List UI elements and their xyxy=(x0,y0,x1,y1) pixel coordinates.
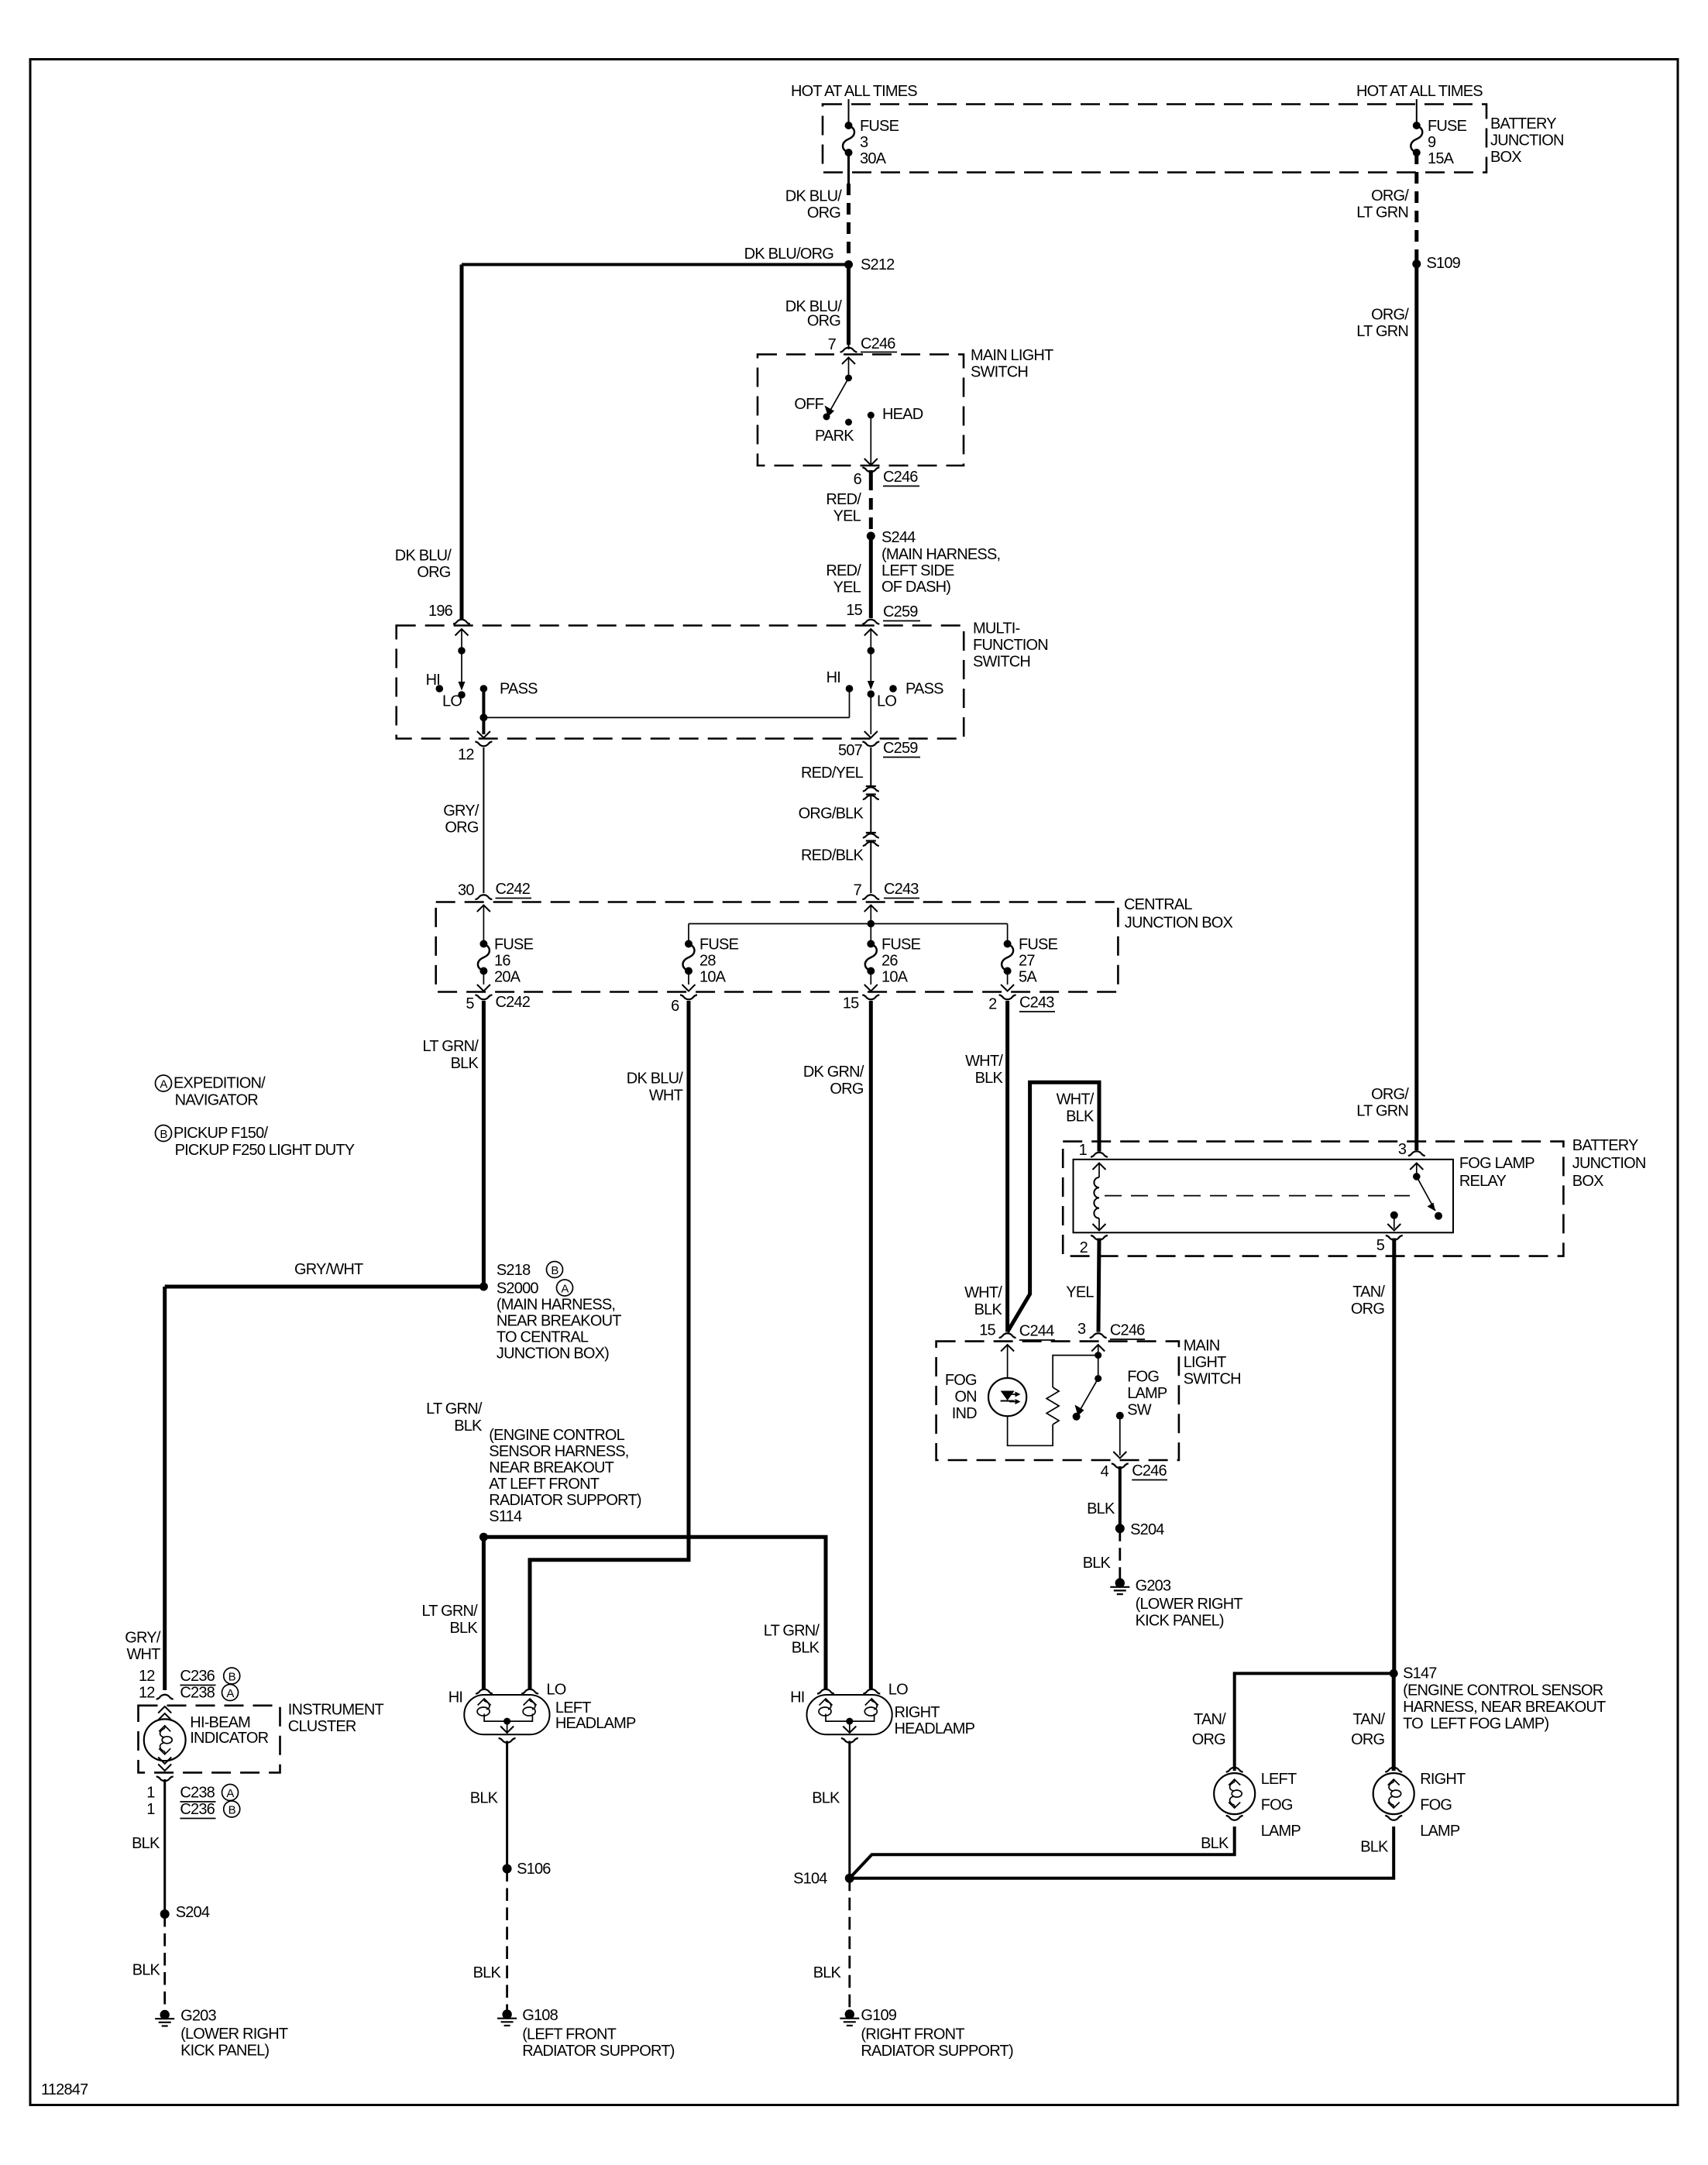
ground G203 (fog) xyxy=(1110,1578,1129,1594)
svg-text:RELAY: RELAY xyxy=(1459,1173,1507,1190)
svg-text:JUNCTION: JUNCTION xyxy=(1572,1155,1646,1172)
svg-text:HOT AT ALL TIMES: HOT AT ALL TIMES xyxy=(791,83,917,100)
svg-text:OFF: OFF xyxy=(794,396,823,413)
svg-text:15: 15 xyxy=(846,602,862,619)
wire DK BLU/ORG dashed fuse3 to S212 xyxy=(847,184,851,265)
svg-text:C259: C259 xyxy=(883,740,918,757)
relay pin 3 connector xyxy=(1408,1151,1425,1156)
svg-text:30A: 30A xyxy=(860,150,887,167)
svg-text:LT GRN/: LT GRN/ xyxy=(423,1038,479,1055)
svg-text:TO LEFT FOG LAMP): TO LEFT FOG LAMP) xyxy=(1403,1716,1548,1733)
svg-text:1: 1 xyxy=(1079,1142,1088,1159)
svg-text:TAN/: TAN/ xyxy=(1194,1711,1226,1728)
connector C246 pin 6 xyxy=(862,468,879,473)
svg-text:B: B xyxy=(229,1671,236,1684)
svg-text:YEL: YEL xyxy=(1066,1284,1094,1301)
svg-text:15A: 15A xyxy=(1428,150,1455,167)
contact PASS (left) xyxy=(480,685,488,692)
svg-text:4: 4 xyxy=(1101,1463,1109,1480)
svg-text:YEL: YEL xyxy=(833,579,861,596)
wire S114 down to left headlamp HI xyxy=(482,1537,486,1689)
wire RED/YEL S244 to C259 pin 15 xyxy=(869,536,873,618)
resistor xyxy=(1046,1387,1059,1424)
wire internal feed xyxy=(689,923,1008,925)
svg-text:C243: C243 xyxy=(1019,995,1054,1012)
svg-text:LT GRN: LT GRN xyxy=(1356,204,1408,222)
node S218/S2000 xyxy=(479,1283,488,1291)
switch pivot dot xyxy=(845,375,852,382)
svg-text:ON: ON xyxy=(954,1389,976,1406)
svg-text:SWITCH: SWITCH xyxy=(971,364,1028,381)
svg-text:C246: C246 xyxy=(883,469,918,486)
contact LO (left) xyxy=(458,691,466,699)
svg-text:S218: S218 xyxy=(497,1262,531,1279)
wire BLK dashed S204 to G203 xyxy=(163,1914,166,2010)
wire RED/BLK to CJB pin 7 xyxy=(870,841,871,894)
svg-text:NAVIGATOR: NAVIGATOR xyxy=(175,1092,259,1109)
svg-text:ORG/BLK: ORG/BLK xyxy=(799,806,864,823)
note A EXPEDITION/NAVIGATOR xyxy=(156,1075,172,1091)
wire BLK dashed to G203 xyxy=(1119,1528,1121,1579)
entry arrow pin 7 xyxy=(864,906,878,912)
contact PASS (right) xyxy=(889,685,897,692)
wire DK GRN/ORG pin15 to right headlamp LO xyxy=(869,1001,873,1689)
svg-text:WHT/: WHT/ xyxy=(965,1053,1003,1070)
svg-text:ORG: ORG xyxy=(1351,1731,1384,1748)
svg-text:C259: C259 xyxy=(883,603,918,620)
svg-text:LEFT: LEFT xyxy=(1261,1771,1297,1788)
svg-text:G203: G203 xyxy=(180,2008,216,2025)
svg-text:G108: G108 xyxy=(522,2007,558,2024)
relay contact: pin 3 entry xyxy=(1410,1163,1423,1170)
contact HEAD xyxy=(868,412,875,419)
svg-text:FUSE: FUSE xyxy=(1428,118,1467,135)
fog on indicator LED xyxy=(988,1378,1026,1416)
svg-text:MULTI-: MULTI- xyxy=(973,620,1020,637)
svg-text:ORG/: ORG/ xyxy=(1371,1086,1409,1103)
wire S147 to right fog lamp xyxy=(1392,1673,1396,1771)
right headlamp HI bulb xyxy=(819,1699,833,1716)
svg-text:PICKUP F250 LIGHT DUTY: PICKUP F250 LIGHT DUTY xyxy=(175,1142,355,1159)
svg-text:G203: G203 xyxy=(1136,1578,1171,1595)
svg-text:FOG: FOG xyxy=(1261,1797,1293,1814)
svg-text:12: 12 xyxy=(139,1668,155,1685)
svg-text:INDICATOR: INDICATOR xyxy=(190,1730,268,1747)
svg-text:PICKUP F150/: PICKUP F150/ xyxy=(174,1125,268,1142)
svg-text:6: 6 xyxy=(854,471,862,488)
wire fuse9 top stub xyxy=(1416,99,1418,125)
svg-text:JUNCTION BOX: JUNCTION BOX xyxy=(1125,915,1233,932)
left pivot dot xyxy=(458,647,466,655)
svg-text:B: B xyxy=(160,1128,167,1141)
svg-text:BLK: BLK xyxy=(975,1070,1004,1087)
svg-text:EXPEDITION/: EXPEDITION/ xyxy=(174,1075,266,1092)
connector pin 1 C238/C236 xyxy=(156,1777,174,1782)
svg-text:TAN/: TAN/ xyxy=(1352,1711,1385,1728)
wire BLK dashed S106 to G108 xyxy=(506,1869,508,2010)
wire fuse3 top stub xyxy=(848,99,850,125)
svg-text:2: 2 xyxy=(988,996,997,1013)
svg-text:OF DASH): OF DASH) xyxy=(881,579,950,596)
fog switch box (dashed) xyxy=(936,1342,1179,1460)
right headlamp bottom connector xyxy=(841,1738,858,1743)
svg-text:112847: 112847 xyxy=(41,2081,88,2098)
svg-text:LT GRN/: LT GRN/ xyxy=(421,1603,478,1620)
left blade down to LO xyxy=(461,651,462,688)
svg-text:BATTERY: BATTERY xyxy=(1490,115,1556,132)
svg-text:HARNESS, NEAR BREAKOUT: HARNESS, NEAR BREAKOUT xyxy=(1403,1699,1606,1716)
svg-text:S204: S204 xyxy=(1130,1521,1164,1538)
wire ORG/LT GRN S109 down to relay pin 3 xyxy=(1414,264,1418,1150)
svg-text:WHT/: WHT/ xyxy=(1057,1091,1095,1108)
wire BLK cluster to S204 xyxy=(163,1779,166,1914)
svg-text:ORG/: ORG/ xyxy=(1371,187,1409,204)
node S104 xyxy=(845,1874,854,1883)
svg-text:7: 7 xyxy=(854,882,862,899)
svg-text:BLK: BLK xyxy=(1201,1835,1229,1852)
svg-text:DK BLU/ORG: DK BLU/ORG xyxy=(744,246,834,263)
fuse F26 xyxy=(867,940,875,948)
svg-text:BLK: BLK xyxy=(812,1790,840,1807)
svg-text:KICK PANEL): KICK PANEL) xyxy=(1136,1613,1224,1630)
svg-text:(LEFT FRONT: (LEFT FRONT xyxy=(522,2026,616,2043)
wire S104 horizontal to right fog lamp xyxy=(850,1827,1394,1878)
left fog lamp xyxy=(1226,1768,1243,1772)
svg-text:TAN/: TAN/ xyxy=(1352,1284,1385,1301)
left section entry arrow xyxy=(455,629,469,636)
junction dot xyxy=(479,713,487,721)
svg-text:BATTERY: BATTERY xyxy=(1572,1137,1638,1154)
left headlamp HI bulb xyxy=(477,1699,491,1716)
wire PASS down xyxy=(482,689,485,734)
svg-text:A: A xyxy=(160,1078,167,1091)
svg-text:BOX: BOX xyxy=(1490,149,1521,166)
svg-text:C238: C238 xyxy=(180,1685,215,1702)
svg-text:NEAR BREAKOUT: NEAR BREAKOUT xyxy=(489,1459,613,1476)
main light switch box (dashed) xyxy=(758,355,964,466)
svg-text:28: 28 xyxy=(699,953,716,970)
left headlamp body xyxy=(464,1695,549,1734)
fog switch blade xyxy=(1079,1379,1098,1413)
svg-text:NEAR BREAKOUT: NEAR BREAKOUT xyxy=(497,1313,621,1330)
svg-text:LO: LO xyxy=(442,693,462,710)
wire RED/YEL dashed pin6 to S244 xyxy=(869,479,873,536)
svg-text:LEFT SIDE: LEFT SIDE xyxy=(881,562,954,579)
svg-text:MAIN: MAIN xyxy=(1184,1338,1220,1355)
svg-text:S212: S212 xyxy=(861,256,895,273)
inline connector (507/ORG BLK) xyxy=(863,786,879,792)
connector C259 pin 15 xyxy=(862,620,879,624)
svg-text:RED/YEL: RED/YEL xyxy=(801,765,864,782)
svg-text:RADIATOR SUPPORT): RADIATOR SUPPORT) xyxy=(861,2043,1013,2060)
node S109 xyxy=(1412,259,1421,268)
svg-text:27: 27 xyxy=(1019,953,1035,970)
wire TAN/ORG relay pin5 to S147 xyxy=(1392,1239,1396,1674)
fuse F16 xyxy=(479,940,487,948)
svg-text:12: 12 xyxy=(139,1685,155,1702)
svg-text:BLK: BLK xyxy=(813,1964,842,1981)
contact LO (right) xyxy=(868,690,875,698)
svg-text:(MAIN HARNESS,: (MAIN HARNESS, xyxy=(881,546,1000,563)
svg-text:S114: S114 xyxy=(489,1508,522,1525)
svg-text:(RIGHT FRONT: (RIGHT FRONT xyxy=(861,2026,964,2043)
svg-text:LAMP: LAMP xyxy=(1420,1823,1460,1840)
svg-text:CENTRAL: CENTRAL xyxy=(1124,896,1192,913)
svg-text:15: 15 xyxy=(979,1322,995,1339)
svg-text:GRY/: GRY/ xyxy=(125,1630,161,1647)
svg-text:BOX: BOX xyxy=(1572,1173,1603,1190)
wire left branch down to MFS pin 196 xyxy=(460,265,464,621)
svg-text:30: 30 xyxy=(458,882,474,899)
left headlamp internal common xyxy=(484,1714,532,1722)
svg-text:7: 7 xyxy=(828,336,837,353)
connector C243 pin 2 xyxy=(999,995,1016,1000)
entry arrow pin 30 xyxy=(477,906,490,912)
svg-text:YEL: YEL xyxy=(833,508,861,525)
left headlamp LO bulb xyxy=(523,1699,537,1716)
wire BLK to S106 xyxy=(506,1741,508,1869)
svg-text:TO CENTRAL: TO CENTRAL xyxy=(497,1329,589,1346)
fuse F28 xyxy=(685,940,692,948)
fuse F3 xyxy=(845,122,853,129)
svg-text:ORG: ORG xyxy=(445,820,478,837)
svg-text:RED/: RED/ xyxy=(826,491,861,508)
svg-text:20A: 20A xyxy=(494,969,521,986)
svg-text:BLK: BLK xyxy=(451,1055,479,1072)
svg-text:BLK: BLK xyxy=(1066,1108,1095,1125)
right fog lamp xyxy=(1385,1768,1402,1772)
svg-text:S104: S104 xyxy=(793,1871,827,1888)
svg-text:C242: C242 xyxy=(496,994,531,1011)
svg-text:(ENGINE CONTROL: (ENGINE CONTROL xyxy=(489,1427,624,1444)
svg-text:LAMP: LAMP xyxy=(1261,1823,1301,1840)
relay coil exit arrow xyxy=(1098,1218,1100,1229)
contact HI (left) xyxy=(436,685,444,692)
svg-text:MAIN LIGHT: MAIN LIGHT xyxy=(971,347,1053,364)
relay pin 1 connector xyxy=(1091,1153,1108,1157)
svg-text:RIGHT: RIGHT xyxy=(895,1704,940,1721)
svg-text:PASS: PASS xyxy=(906,681,943,698)
right headlamp HI connector xyxy=(817,1689,834,1694)
entry arrow pin 15 xyxy=(1001,1345,1014,1352)
svg-text:HEADLAMP: HEADLAMP xyxy=(555,1715,636,1732)
wire BLK pin4 to S204 xyxy=(1119,1466,1122,1528)
node S147 xyxy=(1390,1669,1398,1678)
svg-text:DK BLU/: DK BLU/ xyxy=(395,548,452,565)
ground G203 xyxy=(155,2010,174,2026)
contact OFF xyxy=(823,414,830,421)
wire DK BLU/ORG horizontal to S212 xyxy=(462,263,849,266)
wire resistor top to pin3 wire junction xyxy=(1053,1356,1098,1387)
svg-text:2: 2 xyxy=(1080,1239,1088,1256)
svg-text:GRY/WHT: GRY/WHT xyxy=(294,1261,363,1278)
svg-text:LT GRN/: LT GRN/ xyxy=(764,1623,820,1640)
svg-text:C238: C238 xyxy=(180,1785,215,1802)
svg-text:BLK: BLK xyxy=(449,1620,478,1637)
svg-text:FUSE: FUSE xyxy=(699,936,739,954)
svg-text:10A: 10A xyxy=(881,969,909,986)
fog lamp relay box xyxy=(1074,1160,1454,1233)
svg-text:LO: LO xyxy=(877,693,896,710)
svg-text:RED/BLK: RED/BLK xyxy=(801,847,864,864)
wire S212 down to C246 pin 7 xyxy=(847,265,851,345)
wire GRY/WHT down to cluster xyxy=(163,1287,167,1690)
hi-beam indicator bulb xyxy=(158,1706,171,1713)
relay internal dashed divider xyxy=(1105,1195,1410,1197)
right headlamp body xyxy=(807,1695,892,1734)
svg-text:(LOWER RIGHT: (LOWER RIGHT xyxy=(1136,1596,1243,1613)
svg-text:BLK: BLK xyxy=(454,1418,483,1435)
svg-text:LIGHT: LIGHT xyxy=(1184,1354,1226,1371)
svg-text:BLK: BLK xyxy=(974,1301,1003,1318)
fog switch contact xyxy=(1116,1412,1124,1420)
svg-text:5A: 5A xyxy=(1019,969,1037,986)
wire LED bottom to resistor bottom xyxy=(1008,1416,1053,1445)
svg-text:JUNCTION BOX): JUNCTION BOX) xyxy=(497,1345,609,1363)
wire HI (right) stub xyxy=(849,689,851,717)
node S244 xyxy=(867,532,875,541)
svg-text:S244: S244 xyxy=(881,529,916,546)
svg-text:G109: G109 xyxy=(861,2007,896,2024)
relay movable contact to pin 5 xyxy=(1390,1211,1398,1219)
svg-text:FUSE: FUSE xyxy=(860,118,899,135)
connector C242 pin 5 xyxy=(475,995,492,1000)
contact PARK xyxy=(845,419,852,426)
svg-text:3: 3 xyxy=(1398,1141,1407,1158)
junction dot on feed xyxy=(868,920,875,928)
wire S114 horizontal and down to right headlamp HI xyxy=(483,1537,826,1689)
connector C242 pin 30 xyxy=(475,895,492,899)
node S114 xyxy=(479,1533,488,1541)
svg-text:(MAIN HARNESS,: (MAIN HARNESS, xyxy=(497,1297,615,1314)
connector C259 pin 507 xyxy=(862,742,879,747)
fuse F9 xyxy=(1413,122,1421,129)
svg-text:HOT AT ALL TIMES: HOT AT ALL TIMES xyxy=(1356,83,1483,100)
connector pin 6 xyxy=(680,995,697,1000)
svg-text:5: 5 xyxy=(1376,1237,1385,1254)
svg-text:LAMP: LAMP xyxy=(1127,1385,1167,1402)
svg-text:ORG: ORG xyxy=(830,1081,863,1098)
svg-text:DK BLU/: DK BLU/ xyxy=(627,1070,683,1088)
svg-text:RIGHT: RIGHT xyxy=(1420,1771,1466,1788)
svg-text:FUSE: FUSE xyxy=(494,936,534,954)
left headlamp LO connector xyxy=(521,1689,538,1694)
right pivot dot xyxy=(868,647,875,655)
svg-text:HEAD: HEAD xyxy=(882,406,923,423)
svg-text:FOG: FOG xyxy=(1420,1797,1452,1814)
svg-text:FOG: FOG xyxy=(1127,1369,1159,1386)
ground G108 xyxy=(497,2009,517,2026)
svg-text:BLK: BLK xyxy=(792,1640,820,1657)
svg-text:GRY/: GRY/ xyxy=(443,802,479,820)
svg-text:6: 6 xyxy=(671,998,679,1015)
wire contact down to pin 4 xyxy=(1119,1416,1121,1455)
svg-text:3: 3 xyxy=(1077,1321,1086,1338)
svg-text:9: 9 xyxy=(1428,134,1436,151)
svg-text:BLK: BLK xyxy=(1083,1555,1112,1572)
relay blade xyxy=(1417,1177,1435,1211)
fuse F27 xyxy=(1004,940,1012,948)
wire S147 to left fog lamp xyxy=(1235,1673,1394,1771)
svg-text:LT GRN: LT GRN xyxy=(1356,1103,1408,1120)
connector C246 pin 3 xyxy=(1090,1333,1107,1338)
node S106 xyxy=(503,1864,512,1874)
entry arrow pin 7 xyxy=(842,358,855,365)
svg-text:DK GRN/: DK GRN/ xyxy=(803,1064,864,1081)
relay coil entry arrow xyxy=(1093,1163,1106,1170)
connector C246 pin 7 xyxy=(848,345,850,349)
svg-text:16: 16 xyxy=(494,953,510,970)
svg-text:SWITCH: SWITCH xyxy=(973,654,1030,671)
svg-text:FUNCTION: FUNCTION xyxy=(973,637,1048,654)
wire RED/YEL 507 to inline connector xyxy=(870,747,871,786)
svg-text:JUNCTION: JUNCTION xyxy=(1490,132,1564,149)
inline connector (ORG BLK/RED BLK) xyxy=(863,833,879,838)
connector C243 pin 7 xyxy=(862,895,879,899)
svg-text:BLK: BLK xyxy=(470,1790,499,1807)
connector C244 pin 15 xyxy=(999,1333,1016,1338)
svg-text:AT LEFT FRONT: AT LEFT FRONT xyxy=(489,1476,599,1493)
node S204 (fog) xyxy=(1115,1524,1125,1533)
svg-text:LT GRN/: LT GRN/ xyxy=(426,1400,483,1418)
svg-text:HI: HI xyxy=(448,1689,462,1706)
svg-text:A: A xyxy=(561,1283,569,1296)
svg-text:SWITCH: SWITCH xyxy=(1184,1371,1241,1388)
svg-text:3: 3 xyxy=(860,134,868,151)
svg-text:BLK: BLK xyxy=(132,1962,161,1979)
svg-text:(ENGINE CONTROL SENSOR: (ENGINE CONTROL SENSOR xyxy=(1403,1682,1603,1699)
svg-text:SENSOR HARNESS,: SENSOR HARNESS, xyxy=(489,1443,628,1460)
svg-text:LO: LO xyxy=(546,1682,565,1699)
svg-text:10A: 10A xyxy=(699,969,727,986)
svg-text:26: 26 xyxy=(881,953,898,970)
node S212 xyxy=(844,260,853,269)
svg-text:ORG: ORG xyxy=(807,313,840,330)
svg-text:5: 5 xyxy=(466,995,474,1012)
svg-text:A: A xyxy=(226,1687,234,1700)
svg-text:CLUSTER: CLUSTER xyxy=(288,1718,356,1735)
svg-text:C244: C244 xyxy=(1019,1323,1054,1340)
entry arrow pin 3 xyxy=(1091,1345,1105,1352)
svg-text:HI: HI xyxy=(790,1689,804,1706)
svg-text:IND: IND xyxy=(952,1405,977,1422)
svg-text:WHT: WHT xyxy=(649,1088,683,1105)
central junction box (dashed) xyxy=(436,902,1119,992)
svg-text:ORG: ORG xyxy=(417,564,450,581)
right section entry arrow xyxy=(864,629,878,636)
svg-text:RED/: RED/ xyxy=(826,562,861,579)
svg-text:ORG: ORG xyxy=(1351,1301,1384,1318)
relay coil xyxy=(1094,1177,1099,1218)
svg-text:BLK: BLK xyxy=(473,1964,502,1981)
svg-text:C246: C246 xyxy=(861,335,895,352)
instrument cluster box (dashed) xyxy=(139,1706,280,1773)
switch blade to OFF xyxy=(829,378,849,413)
note B PICKUP F150/F250 xyxy=(156,1125,172,1142)
wire WHT/BLK pin2 to fog switch pin 15 xyxy=(1005,1001,1009,1332)
svg-text:PARK: PARK xyxy=(815,428,854,445)
svg-text:BLK: BLK xyxy=(1087,1500,1115,1517)
wire ORG/BLK xyxy=(870,795,871,833)
svg-text:FOG LAMP: FOG LAMP xyxy=(1459,1155,1534,1172)
svg-text:S2000: S2000 xyxy=(497,1280,539,1297)
wire LT GRN/BLK pin5 to S218 xyxy=(482,1001,486,1287)
svg-text:FUSE: FUSE xyxy=(1019,936,1058,954)
node S204 xyxy=(160,1909,170,1919)
svg-text:B: B xyxy=(551,1264,558,1277)
relay pin 5 connector xyxy=(1386,1235,1403,1240)
wire DK BLU/WHT pin6 down, left, down to left headlamp LO xyxy=(530,1001,689,1689)
